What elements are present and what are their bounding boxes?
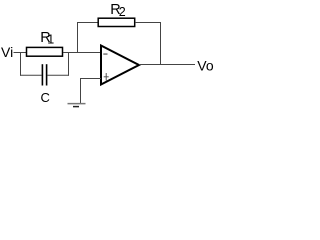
svg-text:Vi: Vi [1, 44, 13, 60]
capacitor C plates [42, 64, 46, 85]
wire ground drop [80, 79, 82, 104]
op-amp non-inverting input plus sign [104, 73, 109, 81]
wire Vi input lead [14, 52, 27, 54]
ground [68, 104, 86, 107]
wire feedback top segment to R2 left [77, 22, 98, 24]
svg-text:2: 2 [119, 5, 126, 19]
svg-text:1: 1 [47, 32, 54, 46]
wire junction drop left of R1 to C branch [20, 53, 22, 76]
wire R1 output to op-amp inverting input [63, 52, 101, 54]
wire feedback riser from inverting node up to R2 [77, 23, 79, 54]
wire op-amp output segment [139, 64, 195, 66]
wire R2 right segment [135, 22, 161, 24]
resistor R1 [27, 47, 63, 56]
wire feedback right drop to output node [160, 23, 162, 66]
wire non-inverting input segment [80, 78, 101, 80]
op-amp inverting input minus sign [103, 53, 107, 55]
wire capacitor branch right segment [47, 74, 69, 76]
label R1 [40, 30, 54, 46]
resistor R2 [98, 18, 135, 26]
svg-text:Vo: Vo [197, 57, 214, 73]
wire capacitor branch left segment [20, 74, 42, 76]
svg-text:C: C [41, 90, 50, 105]
label R2 [110, 2, 125, 19]
op-amp U1 [101, 46, 139, 85]
wire capacitor branch right riser to main wire [68, 53, 70, 76]
